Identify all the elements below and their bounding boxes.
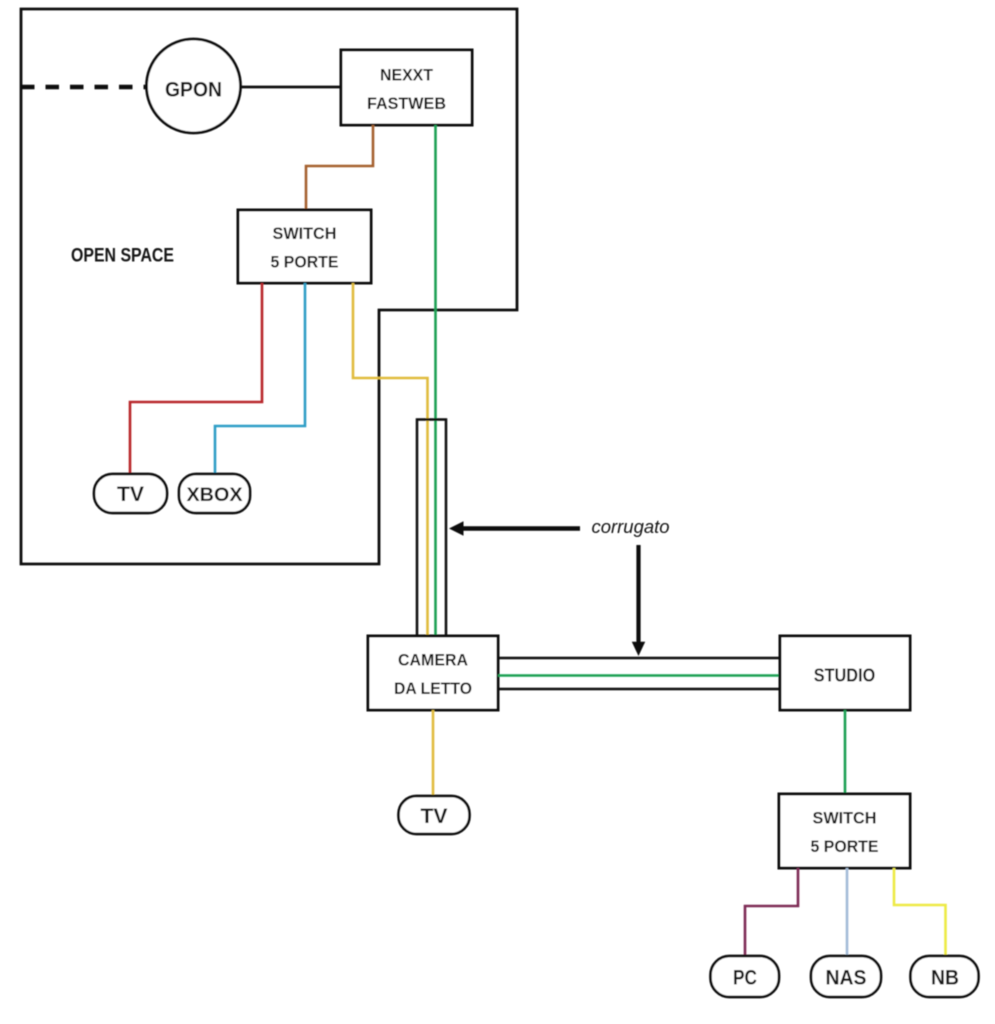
svg-text:SWITCH: SWITCH [273, 224, 337, 243]
wire green CAMERA to STUDIO [498, 674, 780, 677]
wire blue switch to XBOX [215, 283, 305, 474]
device PC [711, 956, 780, 997]
svg-text:STUDIO: STUDIO [814, 665, 876, 686]
wire brown NEXXT to SWITCH 5 PORTE [306, 125, 373, 210]
wire light-blue switch to NAS [846, 868, 849, 956]
wire green NEXXT down through conduit to CAMERA DA LETTO [434, 125, 437, 636]
wire GPON to NEXXT FASTWEB [241, 86, 342, 89]
svg-text:NAS: NAS [826, 967, 867, 990]
switch SWITCH 5 PORTE (open space) [238, 210, 371, 283]
svg-text:5 PORTE: 5 PORTE [811, 837, 879, 856]
svg-text:DA LETTO: DA LETTO [394, 679, 472, 698]
room outline OPEN SPACE (L-shaped wall) [21, 9, 517, 564]
svg-text:SWITCH: SWITCH [813, 809, 877, 828]
svg-text:NB: NB [931, 967, 959, 990]
wire amber switch through conduit to CAMERA DA LETTO [353, 283, 428, 636]
svg-text:GPON: GPON [165, 79, 222, 102]
wire green STUDIO to SWITCH 5 PORTE [844, 710, 847, 794]
device NAS [811, 956, 881, 997]
svg-text:PC: PC [733, 967, 757, 990]
wire amber CAMERA to TV [432, 710, 435, 796]
corrugato conduit (horizontal) bottom wall [498, 688, 780, 691]
svg-text:corrugato: corrugato [592, 516, 670, 537]
svg-text:FASTWEB: FASTWEB [367, 94, 446, 113]
dashed incoming fiber line [21, 85, 146, 90]
router NEXXT FASTWEB [341, 50, 472, 125]
svg-text:OPEN SPACE: OPEN SPACE [71, 245, 174, 267]
room CAMERA DA LETTO [368, 636, 498, 710]
switch SWITCH 5 PORTE (studio) [779, 794, 910, 868]
arrow to vertical conduit [462, 526, 580, 531]
svg-text:CAMERA: CAMERA [398, 651, 468, 670]
device XBOX [179, 474, 250, 513]
arrow to horizontal conduit [636, 545, 640, 644]
corrugato conduit (vertical) [417, 420, 446, 637]
node GPON (circle) [147, 39, 241, 133]
device TV (camera da letto) [399, 796, 470, 834]
wire purple switch to PC [745, 868, 798, 956]
corrugato conduit (horizontal) top wall [498, 657, 780, 660]
svg-text:NEXXT: NEXXT [380, 66, 434, 85]
wire red switch to TV [130, 283, 262, 474]
svg-text:5 PORTE: 5 PORTE [271, 253, 339, 272]
device TV (open space) [94, 474, 167, 513]
svg-text:TV: TV [117, 483, 144, 506]
room STUDIO [780, 636, 910, 710]
wire yellow switch to NB [894, 868, 946, 956]
svg-text:TV: TV [421, 805, 448, 828]
device NB [911, 956, 979, 997]
svg-text:XBOX: XBOX [187, 484, 243, 506]
